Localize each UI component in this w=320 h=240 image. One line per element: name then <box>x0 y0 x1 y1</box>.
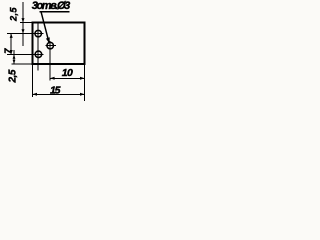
svg-text:3отв.Ø3: 3отв.Ø3 <box>32 0 71 12</box>
svg-text:7: 7 <box>3 48 14 54</box>
svg-text:10: 10 <box>62 67 73 79</box>
svg-text:15: 15 <box>50 85 61 97</box>
svg-text:2,5: 2,5 <box>8 7 18 22</box>
svg-text:2,5: 2,5 <box>8 69 19 83</box>
